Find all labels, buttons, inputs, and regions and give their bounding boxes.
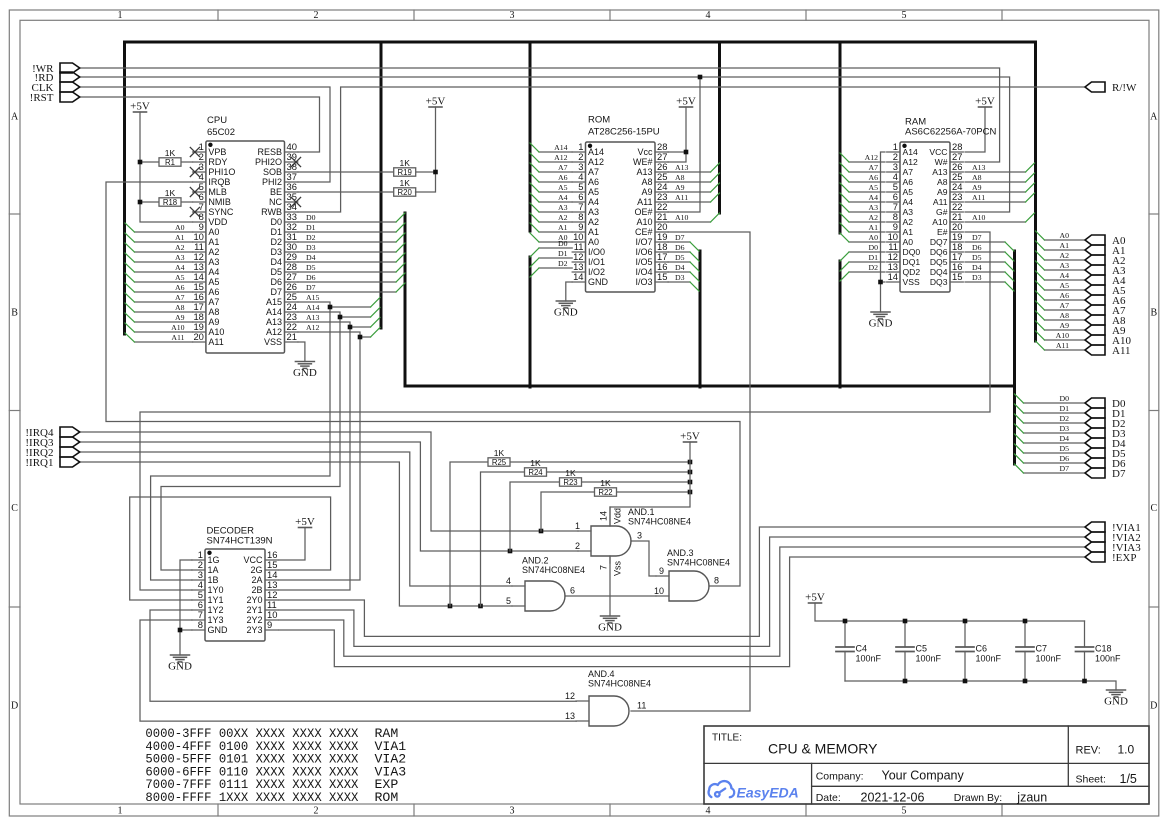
svg-text:D2: D2 (270, 237, 282, 247)
svg-text:2G: 2G (250, 565, 262, 575)
svg-text:1K: 1K (399, 158, 410, 168)
svg-text:4: 4 (506, 576, 511, 586)
svg-text:A4: A4 (588, 197, 599, 207)
svg-text:8: 8 (714, 576, 719, 586)
svg-text:A12: A12 (266, 327, 282, 337)
svg-text:D5: D5 (675, 253, 685, 262)
svg-text:6: 6 (570, 586, 575, 596)
svg-text:D1: D1 (868, 253, 878, 262)
svg-text:A11: A11 (171, 333, 184, 342)
svg-text:D7: D7 (306, 283, 316, 292)
svg-text:D7: D7 (972, 233, 982, 242)
svg-text:A6: A6 (558, 173, 568, 182)
svg-text:A3: A3 (1059, 261, 1069, 270)
svg-text:R25: R25 (492, 458, 507, 467)
svg-text:15: 15 (657, 271, 667, 282)
svg-text:A14: A14 (903, 147, 919, 157)
svg-text:21: 21 (287, 331, 297, 342)
svg-text:DQ1: DQ1 (903, 257, 921, 267)
svg-text:CPU & MEMORY: CPU & MEMORY (768, 741, 878, 757)
svg-text:D2: D2 (306, 233, 316, 242)
svg-text:WE#: WE# (633, 157, 653, 167)
svg-text:!RST: !RST (30, 92, 54, 104)
svg-text:A7: A7 (1059, 301, 1069, 310)
svg-text:A2: A2 (208, 247, 219, 257)
svg-text:A8: A8 (641, 177, 652, 187)
svg-text:1Y1: 1Y1 (208, 595, 224, 605)
svg-text:R22: R22 (598, 488, 612, 497)
svg-text:GND: GND (208, 625, 229, 635)
svg-text:A5: A5 (175, 273, 185, 282)
svg-text:AND.1: AND.1 (628, 507, 655, 517)
svg-text:A0: A0 (208, 227, 219, 237)
svg-text:PHI2: PHI2 (262, 177, 282, 187)
svg-text:Vcc: Vcc (637, 147, 653, 157)
svg-text:PHI2O: PHI2O (255, 157, 282, 167)
svg-text:10: 10 (654, 586, 664, 596)
svg-text:A13: A13 (932, 167, 948, 177)
svg-text:D1: D1 (1059, 404, 1069, 413)
svg-text:1: 1 (118, 806, 123, 817)
svg-text:D5: D5 (1059, 444, 1069, 453)
svg-text:A11: A11 (933, 197, 948, 207)
svg-text:9: 9 (267, 619, 272, 630)
svg-text:D2: D2 (558, 259, 568, 268)
svg-text:A2: A2 (903, 217, 914, 227)
svg-text:A13: A13 (972, 163, 986, 172)
svg-text:5: 5 (902, 10, 907, 21)
svg-text:1/5: 1/5 (1120, 772, 1137, 786)
svg-text:SN74HC08NE4: SN74HC08NE4 (667, 558, 730, 568)
svg-text:1K: 1K (600, 478, 611, 488)
svg-text:I/O5: I/O5 (635, 257, 652, 267)
svg-text:GND: GND (293, 367, 317, 379)
svg-text:A9: A9 (675, 183, 685, 192)
svg-text:SOB: SOB (263, 167, 282, 177)
svg-text:AND.2: AND.2 (522, 556, 549, 566)
svg-text:+5V: +5V (676, 96, 696, 108)
svg-text:A8: A8 (972, 173, 982, 182)
svg-text:A8: A8 (208, 307, 219, 317)
svg-text:D3: D3 (270, 247, 282, 257)
svg-text:G#: G# (936, 207, 948, 217)
svg-text:D1: D1 (558, 249, 568, 258)
svg-text:SN74HC08NE4: SN74HC08NE4 (522, 565, 585, 575)
svg-text:A0: A0 (903, 237, 914, 247)
svg-text:I/O1: I/O1 (588, 257, 605, 267)
svg-text:8: 8 (198, 619, 203, 630)
svg-text:20: 20 (193, 331, 203, 342)
svg-text:A2: A2 (868, 213, 878, 222)
svg-text:1K: 1K (165, 148, 176, 158)
svg-text:A10: A10 (636, 217, 652, 227)
svg-text:GND: GND (598, 622, 622, 634)
svg-text:2A: 2A (251, 575, 262, 585)
svg-text:1K: 1K (399, 178, 410, 188)
svg-text:DQ0: DQ0 (903, 247, 921, 257)
svg-text:AT28C256-15PU: AT28C256-15PU (588, 127, 660, 138)
svg-text:A5: A5 (1059, 281, 1069, 290)
svg-text:100nF: 100nF (856, 654, 882, 664)
svg-text:A0: A0 (868, 233, 878, 242)
svg-text:2: 2 (314, 10, 319, 21)
svg-text:A7: A7 (208, 297, 219, 307)
svg-text:A5: A5 (558, 183, 568, 192)
svg-text:A6: A6 (903, 177, 914, 187)
svg-text:2Y2: 2Y2 (246, 615, 262, 625)
svg-text:A9: A9 (937, 187, 948, 197)
svg-text:OE#: OE# (634, 207, 652, 217)
svg-text:D: D (11, 701, 18, 712)
svg-text:1B: 1B (208, 575, 219, 585)
svg-text:A13: A13 (636, 167, 652, 177)
svg-text:R18: R18 (163, 198, 177, 207)
svg-text:2Y3: 2Y3 (246, 625, 262, 635)
svg-text:C4: C4 (856, 644, 868, 654)
svg-text:A9: A9 (175, 313, 185, 322)
svg-text:A2: A2 (588, 217, 599, 227)
svg-text:DQ7: DQ7 (930, 237, 948, 247)
svg-text:A11: A11 (1112, 345, 1131, 357)
svg-text:DQ4: DQ4 (930, 267, 948, 277)
svg-text:SN74HCT139N: SN74HCT139N (207, 536, 273, 547)
svg-text:9: 9 (659, 566, 664, 576)
svg-text:R23: R23 (563, 478, 577, 487)
svg-text:A5: A5 (208, 277, 219, 287)
svg-text:15: 15 (952, 271, 962, 282)
svg-text:MLB: MLB (208, 187, 227, 197)
svg-text:A12: A12 (588, 157, 604, 167)
svg-text:2Y0: 2Y0 (246, 595, 262, 605)
svg-text:D5: D5 (270, 267, 282, 277)
svg-text:A10: A10 (932, 217, 948, 227)
svg-text:A10: A10 (675, 213, 689, 222)
svg-text:100nF: 100nF (916, 654, 942, 664)
svg-text:D5: D5 (306, 263, 316, 272)
svg-text:A6: A6 (868, 173, 878, 182)
svg-text:D2: D2 (1059, 414, 1069, 423)
svg-text:B: B (1150, 308, 1157, 319)
svg-text:A9: A9 (208, 317, 219, 327)
svg-text:A3: A3 (208, 257, 219, 267)
svg-text:2021-12-06: 2021-12-06 (861, 791, 925, 805)
svg-text:8000-FFFF 1XXX XXXX XXXX XXXX: 8000-FFFF 1XXX XXXX XXXX XXXX (145, 790, 358, 805)
svg-text:7: 7 (599, 565, 609, 570)
svg-text:NMIB: NMIB (208, 197, 231, 207)
svg-text:D7: D7 (1059, 464, 1069, 473)
svg-text:A5: A5 (588, 187, 599, 197)
svg-text:A5: A5 (868, 183, 878, 192)
svg-text:R1: R1 (165, 158, 175, 167)
svg-text:D7: D7 (270, 287, 282, 297)
svg-text:VCC: VCC (929, 147, 947, 157)
svg-text:Vdd: Vdd (613, 508, 623, 524)
svg-text:A3: A3 (558, 203, 568, 212)
svg-text:2: 2 (575, 541, 580, 551)
svg-text:D6: D6 (270, 277, 282, 287)
svg-text:4: 4 (706, 10, 711, 21)
svg-text:QD2: QD2 (903, 267, 921, 277)
svg-text:2: 2 (314, 806, 319, 817)
svg-text:C7: C7 (1036, 644, 1048, 654)
svg-text:D4: D4 (972, 263, 982, 272)
svg-text:!IRQ1: !IRQ1 (25, 457, 53, 469)
svg-text:!EXP: !EXP (1112, 552, 1136, 564)
svg-text:A6: A6 (175, 283, 185, 292)
svg-text:SYNC: SYNC (208, 207, 234, 217)
svg-text:A11: A11 (637, 197, 652, 207)
svg-text:IRQB: IRQB (208, 177, 230, 187)
svg-text:A14: A14 (306, 303, 320, 312)
svg-text:A: A (1150, 112, 1158, 123)
svg-text:A13: A13 (266, 317, 282, 327)
svg-text:A2: A2 (558, 213, 568, 222)
svg-text:AND.3: AND.3 (667, 548, 694, 558)
svg-text:jzaun: jzaun (1016, 791, 1047, 805)
svg-text:DQ3: DQ3 (930, 277, 948, 287)
svg-text:65C02: 65C02 (207, 127, 235, 138)
svg-text:+5V: +5V (975, 96, 995, 108)
svg-text:AND.4: AND.4 (588, 669, 615, 679)
svg-text:A7: A7 (868, 163, 878, 172)
svg-text:PHI1O: PHI1O (208, 167, 235, 177)
svg-text:14: 14 (599, 511, 609, 521)
svg-text:1K: 1K (165, 188, 176, 198)
svg-text:A12: A12 (865, 153, 879, 162)
svg-text:VCC: VCC (243, 555, 263, 565)
svg-text:ROM: ROM (588, 115, 610, 126)
svg-text:A13: A13 (306, 313, 320, 322)
svg-text:1.0: 1.0 (1118, 743, 1135, 757)
svg-text:GND: GND (588, 277, 609, 287)
svg-text:A1: A1 (208, 237, 219, 247)
svg-text:+5V: +5V (805, 592, 825, 604)
svg-text:A: A (11, 112, 19, 123)
svg-text:D5: D5 (972, 253, 982, 262)
svg-text:A11: A11 (208, 337, 223, 347)
svg-text:1K: 1K (565, 468, 576, 478)
svg-text:RWB: RWB (261, 207, 282, 217)
svg-text:D3: D3 (306, 243, 316, 252)
svg-text:GND: GND (168, 661, 192, 673)
svg-text:D0: D0 (1059, 394, 1069, 403)
svg-text:+5V: +5V (680, 431, 700, 443)
svg-text:GND: GND (1104, 696, 1128, 708)
svg-text:A8: A8 (175, 303, 185, 312)
svg-text:D7: D7 (675, 233, 685, 242)
svg-text:2Y1: 2Y1 (246, 605, 262, 615)
svg-text:11: 11 (637, 701, 646, 711)
svg-text:A4: A4 (1059, 271, 1069, 280)
svg-text:D4: D4 (1059, 434, 1069, 443)
svg-text:1A: 1A (208, 565, 219, 575)
svg-text:I/O6: I/O6 (635, 247, 652, 257)
svg-text:2B: 2B (251, 585, 262, 595)
svg-text:A7: A7 (903, 167, 914, 177)
svg-text:D3: D3 (675, 273, 685, 282)
svg-text:A9: A9 (972, 183, 982, 192)
svg-text:D4: D4 (270, 257, 282, 267)
svg-text:Sheet:: Sheet: (1076, 774, 1106, 786)
svg-text:A12: A12 (903, 157, 919, 167)
svg-text:RESB: RESB (257, 147, 282, 157)
svg-text:I/O4: I/O4 (635, 267, 652, 277)
svg-text:D2: D2 (868, 263, 878, 272)
svg-text:A6: A6 (1059, 291, 1069, 300)
svg-text:A10: A10 (1056, 331, 1070, 340)
svg-text:D3: D3 (972, 273, 982, 282)
svg-text:D0: D0 (270, 217, 282, 227)
svg-text:Company:: Company: (816, 771, 864, 783)
svg-text:Drawn By:: Drawn By: (954, 792, 1002, 804)
svg-text:A1: A1 (868, 223, 878, 232)
svg-text:DQ6: DQ6 (930, 247, 948, 257)
svg-text:1K: 1K (530, 458, 541, 468)
svg-text:D: D (1150, 701, 1157, 712)
svg-text:A14: A14 (588, 147, 604, 157)
svg-text:A1: A1 (903, 227, 914, 237)
svg-text:A1: A1 (175, 233, 185, 242)
svg-text:+5V: +5V (295, 516, 315, 528)
svg-text:13: 13 (565, 711, 575, 721)
svg-text:Your Company: Your Company (882, 769, 965, 783)
svg-text:1: 1 (575, 521, 580, 531)
svg-text:R/!W: R/!W (1112, 82, 1137, 94)
svg-text:R20: R20 (398, 188, 413, 197)
svg-text:100nF: 100nF (1095, 654, 1121, 664)
svg-text:D0: D0 (558, 239, 568, 248)
svg-text:R24: R24 (528, 468, 543, 477)
svg-text:3: 3 (637, 531, 642, 541)
svg-text:100nF: 100nF (1036, 654, 1062, 664)
svg-text:A4: A4 (208, 267, 219, 277)
svg-text:+5V: +5V (130, 101, 150, 113)
svg-text:A8: A8 (675, 173, 685, 182)
svg-text:RDY: RDY (208, 157, 227, 167)
svg-text:D6: D6 (972, 243, 982, 252)
svg-text:D0: D0 (306, 213, 316, 222)
svg-text:D4: D4 (306, 253, 316, 262)
svg-text:VSS: VSS (264, 337, 282, 347)
svg-text:1G: 1G (208, 555, 220, 565)
svg-text:14: 14 (573, 271, 583, 282)
svg-text:B: B (11, 308, 18, 319)
svg-text:A3: A3 (175, 253, 185, 262)
svg-text:5: 5 (902, 806, 907, 817)
svg-text:A14: A14 (554, 143, 568, 152)
svg-text:I/O7: I/O7 (635, 237, 652, 247)
svg-text:VPB: VPB (208, 147, 226, 157)
svg-text:14: 14 (888, 271, 898, 282)
svg-text:A15: A15 (266, 297, 282, 307)
svg-text:A0: A0 (588, 237, 599, 247)
svg-text:A9: A9 (641, 187, 652, 197)
svg-text:A8: A8 (937, 177, 948, 187)
svg-text:3: 3 (510, 10, 515, 21)
svg-text:D4: D4 (675, 263, 685, 272)
svg-text:EasyEDA: EasyEDA (737, 785, 799, 801)
svg-text:A9: A9 (1059, 321, 1069, 330)
svg-text:5: 5 (506, 596, 511, 606)
svg-text:1K: 1K (494, 448, 505, 458)
svg-text:A8: A8 (1059, 311, 1069, 320)
svg-text:A5: A5 (903, 187, 914, 197)
svg-text:D6: D6 (1059, 454, 1069, 463)
svg-text:W#: W# (935, 157, 948, 167)
svg-text:+5V: +5V (426, 96, 446, 108)
svg-text:A13: A13 (675, 163, 689, 172)
svg-text:A3: A3 (588, 207, 599, 217)
svg-text:GND: GND (554, 307, 578, 319)
svg-text:4: 4 (706, 806, 711, 817)
svg-text:I/O0: I/O0 (588, 247, 605, 257)
svg-text:A3: A3 (868, 203, 878, 212)
svg-text:1Y2: 1Y2 (208, 605, 224, 615)
svg-text:I/O3: I/O3 (635, 277, 652, 287)
svg-text:D7: D7 (1112, 468, 1126, 480)
svg-text:REV:: REV: (1076, 745, 1101, 757)
svg-text:CPU: CPU (207, 115, 227, 126)
svg-text:A12: A12 (306, 323, 320, 332)
svg-text:12: 12 (565, 691, 575, 701)
svg-text:A1: A1 (1059, 241, 1069, 250)
svg-text:A10: A10 (972, 213, 986, 222)
svg-text:A0: A0 (175, 223, 185, 232)
svg-text:AS6C62256A-70PCN: AS6C62256A-70PCN (905, 127, 996, 138)
svg-text:ROM: ROM (375, 790, 399, 805)
svg-text:C6: C6 (976, 644, 988, 654)
svg-text:A11: A11 (1056, 341, 1069, 350)
svg-text:1Y0: 1Y0 (208, 585, 224, 595)
svg-text:A6: A6 (588, 177, 599, 187)
svg-text:R19: R19 (398, 168, 412, 177)
svg-text:A12: A12 (554, 153, 568, 162)
svg-text:A4: A4 (175, 263, 185, 272)
svg-text:C: C (11, 503, 18, 514)
svg-text:SN74HC08NE4: SN74HC08NE4 (588, 679, 651, 689)
svg-text:SN74HC08NE4: SN74HC08NE4 (628, 517, 691, 527)
svg-text:C: C (1150, 503, 1157, 514)
svg-text:VDD: VDD (208, 217, 228, 227)
svg-text:I/O2: I/O2 (588, 267, 605, 277)
svg-text:A0: A0 (1059, 231, 1069, 240)
svg-text:Date:: Date: (816, 792, 841, 804)
svg-text:A4: A4 (903, 197, 914, 207)
svg-text:A7: A7 (558, 163, 568, 172)
svg-text:D1: D1 (306, 223, 316, 232)
svg-text:D6: D6 (675, 243, 685, 252)
svg-text:1: 1 (118, 10, 123, 21)
svg-text:A15: A15 (306, 293, 320, 302)
svg-text:A3: A3 (903, 207, 914, 217)
svg-text:A11: A11 (675, 193, 688, 202)
svg-text:A2: A2 (175, 243, 185, 252)
svg-text:A2: A2 (1059, 251, 1069, 260)
svg-text:A6: A6 (208, 287, 219, 297)
svg-text:DQ5: DQ5 (930, 257, 948, 267)
svg-text:A14: A14 (266, 307, 282, 317)
svg-text:D1: D1 (270, 227, 282, 237)
svg-text:E#: E# (937, 227, 948, 237)
svg-text:GND: GND (869, 318, 893, 330)
svg-text:100nF: 100nF (976, 654, 1002, 664)
svg-text:C5: C5 (916, 644, 928, 654)
svg-text:D0: D0 (868, 243, 878, 252)
svg-text:VSS: VSS (903, 277, 920, 287)
svg-text:A1: A1 (558, 223, 568, 232)
svg-text:3: 3 (510, 806, 515, 817)
svg-text:CE#: CE# (635, 227, 653, 237)
